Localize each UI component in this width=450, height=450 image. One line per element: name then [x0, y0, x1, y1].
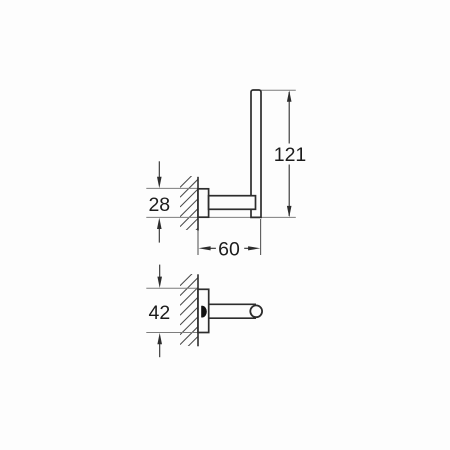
wall bracket (top view): [198, 189, 209, 217]
vertical bar of holder: [251, 90, 261, 217]
dimension 121: line + arrows: [287, 90, 292, 217]
wall line (top view): [197, 177, 199, 231]
svg-text:60: 60: [218, 239, 240, 261]
extension line: wall extended down (60 left): [197, 230, 199, 255]
rod end cap circle: [250, 305, 262, 317]
rod bottom line: [209, 317, 256, 319]
screw keyhole in bracket: [201, 306, 207, 318]
extension line: bracket bottom (42 bottom): [146, 332, 197, 334]
svg-text:121: 121: [274, 144, 307, 166]
arm of holder: [209, 196, 256, 210]
dimension 28: upper arrow: [157, 161, 162, 188]
extension line: bracket top (28 top): [146, 187, 197, 189]
extension line: bar right edge down (60 right): [260, 219, 262, 255]
dimension 42: lower arrow: [157, 333, 162, 357]
dimension 42: upper arrow: [157, 265, 162, 288]
extension line: bracket top (42 top): [146, 287, 197, 289]
wall bracket (bottom view): [198, 289, 209, 332]
extension line: bar top (121 top): [252, 89, 296, 91]
svg-text:42: 42: [149, 302, 171, 324]
svg-text:28: 28: [148, 194, 170, 216]
wall line (bottom view): [197, 274, 199, 346]
wall hatching (top view): [180, 169, 198, 256]
dimension 28: lower arrow: [157, 218, 162, 243]
dimension 60: line + arrows: [198, 246, 260, 250]
extension line: bracket/bar bottom (28 + 121 bottom): [146, 216, 295, 218]
rod (spare roll pin) top line: [209, 303, 256, 305]
wall hatching (bottom view): [180, 268, 198, 365]
